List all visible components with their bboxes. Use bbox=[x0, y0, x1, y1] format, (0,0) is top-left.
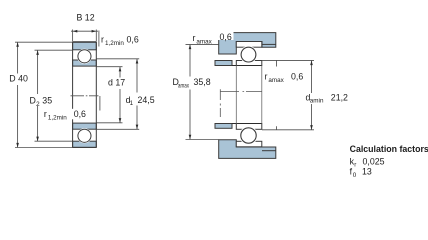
svg-text:0,6: 0,6 bbox=[127, 35, 139, 45]
svg-text:0,6: 0,6 bbox=[74, 109, 86, 119]
svg-text:amax: amax bbox=[178, 83, 190, 90]
svg-text:35: 35 bbox=[42, 96, 52, 106]
svg-text:r: r bbox=[354, 162, 356, 169]
svg-text:d 17: d 17 bbox=[108, 78, 125, 88]
svg-text:r: r bbox=[193, 33, 196, 43]
svg-text:r: r bbox=[44, 109, 47, 119]
svg-text:amax: amax bbox=[268, 77, 284, 84]
svg-text:amin: amin bbox=[310, 98, 324, 105]
svg-text:r: r bbox=[101, 35, 104, 45]
svg-text:1,2min: 1,2min bbox=[105, 40, 124, 47]
svg-text:35,8: 35,8 bbox=[194, 77, 211, 87]
svg-text:0,6: 0,6 bbox=[220, 32, 232, 42]
svg-text:24,5: 24,5 bbox=[138, 95, 155, 105]
svg-text:D 40: D 40 bbox=[9, 74, 28, 84]
svg-text:B 12: B 12 bbox=[77, 13, 95, 23]
svg-text:amax: amax bbox=[196, 39, 212, 46]
svg-text:Calculation factors: Calculation factors bbox=[350, 144, 428, 154]
svg-text:D: D bbox=[30, 96, 36, 106]
svg-text:0,6: 0,6 bbox=[291, 72, 303, 82]
svg-text:2: 2 bbox=[36, 101, 40, 108]
svg-text:r: r bbox=[265, 72, 268, 82]
svg-text:21,2: 21,2 bbox=[331, 92, 348, 102]
svg-text:0,025: 0,025 bbox=[363, 157, 385, 167]
svg-text:1,2min: 1,2min bbox=[48, 114, 67, 121]
svg-text:1: 1 bbox=[130, 100, 134, 107]
svg-text:0: 0 bbox=[353, 172, 357, 179]
svg-text:13: 13 bbox=[362, 167, 372, 177]
